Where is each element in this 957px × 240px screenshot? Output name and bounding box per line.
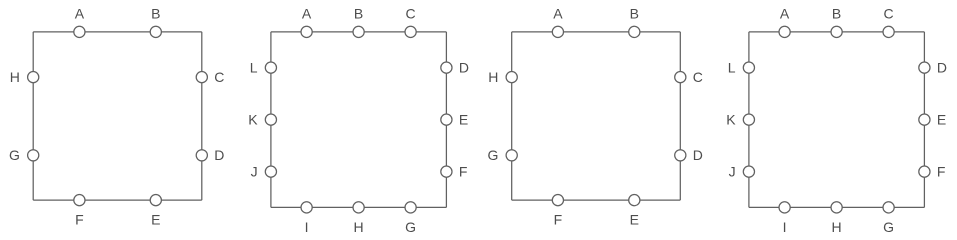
wire: square 3 bottom side [512, 199, 681, 201]
svg-text:A: A [302, 5, 312, 21]
svg-text:K: K [726, 111, 736, 127]
wire: square 1 top side [33, 31, 202, 33]
wire: square 4 left side [748, 32, 750, 208]
node J (square 4) [743, 166, 754, 177]
node C (square 2) [405, 26, 416, 37]
svg-text:C: C [406, 5, 416, 21]
node D (square 3) [675, 150, 686, 161]
svg-text:C: C [693, 69, 703, 85]
node L (square 2) [265, 62, 276, 73]
node A (square 4) [779, 26, 790, 37]
svg-text:J: J [251, 163, 258, 179]
node A (square 1) [74, 26, 85, 37]
node D (square 2) [441, 62, 452, 73]
node E (square 4) [919, 114, 930, 125]
svg-text:B: B [630, 5, 639, 21]
svg-text:D: D [693, 147, 703, 163]
node K (square 4) [743, 114, 754, 125]
svg-text:G: G [9, 147, 20, 163]
wire: square 1 right side [201, 32, 203, 200]
wire: square 4 right side [923, 32, 925, 208]
node B (square 4) [831, 26, 842, 37]
node F (square 2) [441, 166, 452, 177]
svg-text:E: E [937, 111, 946, 127]
svg-text:A: A [553, 5, 563, 21]
svg-text:E: E [151, 212, 160, 228]
wire: square 2 left side [270, 32, 272, 208]
node H (square 4) [831, 202, 842, 213]
node G (square 3) [506, 150, 517, 161]
svg-text:I: I [305, 219, 309, 235]
node G (square 4) [883, 202, 894, 213]
node A (square 3) [552, 26, 563, 37]
node C (square 3) [675, 72, 686, 83]
svg-text:I: I [783, 219, 787, 235]
diagram 4: square with 12 terminals A-L [726, 5, 947, 234]
node F (square 4) [919, 166, 930, 177]
svg-text:C: C [884, 5, 894, 21]
svg-text:H: H [488, 69, 498, 85]
node A (square 2) [301, 26, 312, 37]
node C (square 4) [883, 26, 894, 37]
svg-text:B: B [832, 5, 841, 21]
node B (square 1) [150, 26, 161, 37]
node D (square 1) [196, 150, 207, 161]
svg-text:D: D [459, 59, 469, 75]
svg-text:F: F [75, 212, 84, 228]
node F (square 1) [74, 195, 85, 206]
node L (square 4) [743, 62, 754, 73]
node B (square 2) [353, 26, 364, 37]
wire: square 1 left side [32, 32, 34, 200]
node D (square 4) [919, 62, 930, 73]
node H (square 1) [28, 72, 39, 83]
node E (square 1) [150, 195, 161, 206]
svg-text:H: H [354, 219, 364, 235]
wire: square 4 bottom side [749, 206, 925, 208]
node F (square 3) [552, 195, 563, 206]
svg-text:F: F [937, 163, 946, 179]
node H (square 2) [353, 202, 364, 213]
svg-text:A: A [75, 5, 85, 21]
node G (square 2) [405, 202, 416, 213]
node I (square 2) [301, 202, 312, 213]
wire: square 3 left side [511, 32, 513, 200]
svg-text:H: H [10, 69, 20, 85]
svg-text:A: A [780, 5, 790, 21]
svg-text:B: B [354, 5, 363, 21]
svg-text:L: L [728, 59, 736, 75]
svg-text:K: K [248, 111, 258, 127]
svg-text:L: L [250, 59, 258, 75]
node G (square 1) [28, 150, 39, 161]
svg-text:G: G [883, 219, 894, 235]
node H (square 3) [506, 72, 517, 83]
wire: square 1 bottom side [33, 199, 202, 201]
svg-text:G: G [488, 147, 499, 163]
node J (square 2) [265, 166, 276, 177]
svg-text:E: E [459, 111, 468, 127]
wire: square 3 right side [679, 32, 681, 200]
svg-text:F: F [459, 163, 468, 179]
svg-text:G: G [405, 219, 416, 235]
node E (square 3) [629, 195, 640, 206]
node I (square 4) [779, 202, 790, 213]
svg-text:E: E [630, 212, 639, 228]
svg-text:D: D [937, 59, 947, 75]
node C (square 1) [196, 72, 207, 83]
wire: square 2 top side [271, 31, 447, 33]
svg-text:F: F [554, 212, 563, 228]
wire: square 4 top side [749, 31, 925, 33]
svg-text:C: C [214, 69, 224, 85]
node E (square 2) [441, 114, 452, 125]
node B (square 3) [629, 26, 640, 37]
svg-text:H: H [832, 219, 842, 235]
wire: square 2 right side [445, 32, 447, 208]
svg-text:D: D [214, 147, 224, 163]
wire: square 3 top side [512, 31, 681, 33]
node K (square 2) [265, 114, 276, 125]
diagram 3: square with 8 terminals A-H [488, 5, 703, 227]
diagram 2: square with 12 terminals A-L [248, 5, 469, 234]
wire: square 2 bottom side [271, 206, 447, 208]
diagram 1: square with 8 terminals A-H [9, 5, 224, 227]
svg-text:J: J [729, 163, 736, 179]
svg-text:B: B [151, 5, 160, 21]
